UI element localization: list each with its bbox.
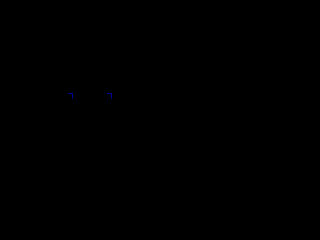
wire 1 horizontal segment [68, 93, 73, 94]
wire 1 vertical segment [72, 94, 73, 99]
wire 2 horizontal segment [107, 93, 112, 94]
schematic canvas (black background) [0, 0, 175, 129]
wire 2 vertical segment [111, 94, 112, 99]
